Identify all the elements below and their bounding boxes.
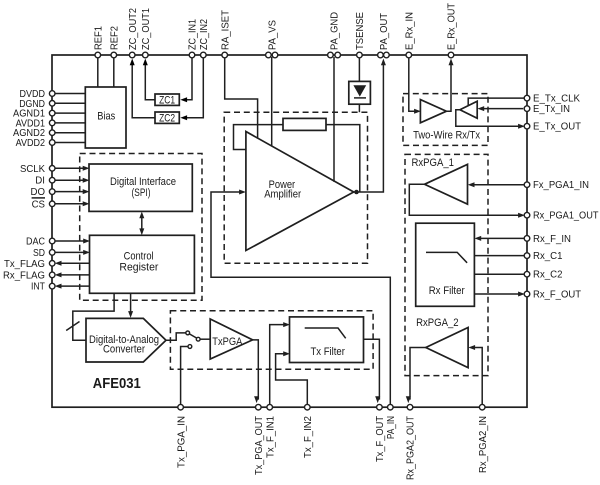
pin AVDD2 <box>16 137 55 149</box>
pin ZC_IN2 <box>198 19 210 58</box>
pin Tx_F_IN1 <box>264 404 276 458</box>
pin RA_ISET <box>219 9 231 57</box>
pin Tx_PGA_OUT <box>253 404 265 475</box>
switch contact b <box>196 337 200 341</box>
pin DGND <box>19 98 55 110</box>
pin E_Tx_IN <box>524 103 570 115</box>
wire DGND to bias <box>54 102 85 104</box>
pin ZC_IN1 <box>187 19 199 58</box>
wire E_Tx_IN to transmit buffer <box>477 106 523 111</box>
pin Tx_FLAG <box>4 258 55 270</box>
svg-text:RxPGA_2: RxPGA_2 <box>416 317 459 329</box>
pin TSENSE <box>354 12 366 58</box>
thermal sense diode box <box>349 81 371 104</box>
wire Tx_F_IN1 to Tx filter <box>270 322 290 405</box>
pin DO <box>31 186 56 198</box>
wire PA_IN pin to power amplifier input <box>211 190 390 406</box>
pin Rx_C1 <box>524 250 562 262</box>
wire Fx_PGA1_IN to RxPGA_1 <box>468 182 525 187</box>
svg-text:Rx_F_IN: Rx_F_IN <box>533 233 571 245</box>
wire DO to SPI <box>54 189 90 194</box>
pin Tx_PGA_IN <box>175 404 187 468</box>
svg-text:E_Rx_IN: E_Rx_IN <box>404 12 416 50</box>
wire switch b to TxPGA <box>200 338 210 340</box>
junction PA output node <box>354 190 359 195</box>
pin REF2 <box>109 26 121 58</box>
pin AGND2 <box>13 127 55 139</box>
svg-text:E_Tx_OUT: E_Tx_OUT <box>533 121 582 133</box>
pin DVDD <box>20 88 56 100</box>
wire receive buffer to E_Rx_OUT <box>446 59 453 112</box>
pin SCLK <box>20 163 55 175</box>
svg-text:E_Rx_OUT: E_Rx_OUT <box>446 2 458 50</box>
wire RxPGA_1 output to Rx_PGA1_OUT <box>409 184 525 217</box>
wire ZC_IN1 to ZC1 <box>180 57 192 102</box>
pin E_Rx_IN <box>404 12 416 58</box>
pin REF1 <box>93 26 105 58</box>
svg-text:PA_OUT: PA_OUT <box>378 12 390 50</box>
wire PA_GND into PA <box>333 57 335 182</box>
svg-text:Tx Filter: Tx Filter <box>310 346 345 358</box>
pin SD <box>33 247 55 259</box>
pin Rx_FLAG <box>3 269 55 281</box>
svg-text:Two-Wire Rx/Tx: Two-Wire Rx/Tx <box>413 130 480 142</box>
op-amp power amplifier <box>246 132 354 251</box>
wire AVDD2 to bias <box>54 142 85 144</box>
svg-text:DO: DO <box>31 186 46 198</box>
wire Rx filter output to Rx_F_OUT <box>474 292 525 297</box>
svg-text:(SPI): (SPI) <box>132 187 151 199</box>
svg-text:Rx_C2: Rx_C2 <box>533 269 563 281</box>
svg-text:Tx_FLAG: Tx_FLAG <box>4 258 45 270</box>
wire AGND2 to bias <box>54 132 85 134</box>
wire PA_VS into PA <box>271 57 273 146</box>
pin Rx_PGA2_OUT <box>405 404 417 480</box>
wire ZC1 out to ZC_OUT1 <box>143 59 155 100</box>
wire transmit buffer to E_Tx_OUT <box>456 110 525 129</box>
Tx section dashed box <box>170 311 373 370</box>
svg-text:Register: Register <box>119 262 158 274</box>
wire SD to control register <box>54 250 90 255</box>
comparator ZC2 <box>155 112 179 125</box>
pin Rx_PGA2_IN <box>477 404 489 473</box>
bus control register to DAC left (with width slash) <box>66 293 114 340</box>
chip outer boundary <box>52 55 527 407</box>
control register block <box>90 235 195 293</box>
buffer two-wire transmit <box>460 101 477 118</box>
wire control register to DAC top <box>128 293 133 318</box>
pin PA_IN <box>385 404 397 439</box>
svg-text:RA_ISET: RA_ISET <box>219 9 231 50</box>
pin Rx_PGA1_OUT <box>524 210 599 222</box>
pin PA_OUT (double) <box>378 12 391 57</box>
svg-text:DAC: DAC <box>26 236 45 248</box>
pin Fx_PGA1_IN <box>524 179 589 191</box>
wire control register to Tx_FLAG <box>55 261 90 266</box>
svg-text:Amplifier: Amplifier <box>264 188 301 200</box>
pin PA_VS (double) <box>266 20 279 58</box>
svg-text:Fx_PGA1_IN: Fx_PGA1_IN <box>533 179 589 191</box>
wire control register to Rx_FLAG <box>55 272 90 277</box>
wire PA output to PA_OUT pin <box>354 59 386 193</box>
pin E_Tx_CLK <box>524 93 580 105</box>
svg-text:Tx_PGA_OUT: Tx_PGA_OUT <box>253 415 265 475</box>
svg-text:TSENSE: TSENSE <box>354 12 366 50</box>
svg-text:Converter: Converter <box>103 343 145 355</box>
svg-text:Tx_F_IN1: Tx_F_IN1 <box>264 416 276 458</box>
wire TSENSE to diode <box>358 57 360 81</box>
amplifier RxPGA_1 <box>412 157 468 204</box>
svg-text:E_Tx_IN: E_Tx_IN <box>533 103 570 115</box>
Tx filter block <box>290 317 364 363</box>
wire AVDD1 to bias <box>54 122 85 124</box>
svg-text:CS: CS <box>32 198 45 210</box>
pin INT <box>31 281 55 293</box>
wire ZC2 out to ZC_OUT2 <box>130 59 155 118</box>
wire Tx filter output to Tx_F_OUT <box>364 339 381 403</box>
switch blade <box>189 334 196 338</box>
comparator ZC1 <box>155 94 179 107</box>
wire ZC_IN2 to ZC2 <box>180 57 203 120</box>
svg-text:REF2: REF2 <box>109 26 121 50</box>
svg-text:INT: INT <box>31 281 45 293</box>
switch contact a <box>186 331 190 335</box>
amplifier TxPGA <box>210 319 252 359</box>
pin Rx_F_IN <box>524 233 571 245</box>
wire Rx_F_IN to Rx filter <box>474 236 524 241</box>
svg-text:ZC1: ZC1 <box>159 95 175 107</box>
svg-text:Rx Filter: Rx Filter <box>429 285 465 297</box>
svg-text:Tx_F_IN2: Tx_F_IN2 <box>302 416 314 458</box>
wire diode to PA box <box>358 104 360 112</box>
svg-text:TxPGA: TxPGA <box>212 336 243 348</box>
svg-text:Rx_FLAG: Rx_FLAG <box>3 269 45 281</box>
amplifier RxPGA_2 <box>416 317 468 368</box>
pin E_Tx_OUT <box>524 121 581 133</box>
pin DI <box>35 175 55 187</box>
two-wire Rx/Tx dashed box <box>403 94 488 146</box>
svg-text:Bias: Bias <box>97 111 115 123</box>
Rx filter block <box>416 223 475 306</box>
svg-text:DI: DI <box>35 175 45 187</box>
bus SPI to control register (bidirectional arrow) <box>139 212 144 236</box>
switch contact c <box>188 345 192 349</box>
pin E_Rx_OUT <box>446 2 458 57</box>
svg-text:ZC_OUT2: ZC_OUT2 <box>127 8 139 50</box>
pin Tx_F_OUT <box>374 404 386 462</box>
wire RA_ISET into PA <box>225 57 258 139</box>
svg-text:ZC_IN2: ZC_IN2 <box>198 19 210 50</box>
svg-text:Tx_PGA_IN: Tx_PGA_IN <box>175 416 187 468</box>
svg-text:REF1: REF1 <box>93 26 105 50</box>
svg-text:ZC_OUT1: ZC_OUT1 <box>140 8 152 50</box>
wire TxPGA output to Tx_PGA_OUT <box>253 340 260 403</box>
wire Tx_F_IN2 to Tx filter <box>276 351 308 405</box>
wire SCLK to SPI <box>54 166 90 171</box>
pin ZC_OUT2 <box>127 8 139 58</box>
svg-text:Rx_F_OUT: Rx_F_OUT <box>533 289 582 301</box>
pin AGND1 <box>13 108 55 120</box>
svg-text:Rx_PGA2_IN: Rx_PGA2_IN <box>477 416 489 473</box>
wire DVDD to bias <box>54 93 85 95</box>
svg-text:PA_GND: PA_GND <box>329 12 341 50</box>
chip name AFE031 <box>93 376 141 392</box>
pin Rx_C2 <box>524 269 562 281</box>
svg-text:RxPGA_1: RxPGA_1 <box>412 157 455 169</box>
wire REF2 to bias <box>113 57 115 87</box>
pin Tx_F_IN2 <box>302 404 314 458</box>
pin Rx_F_OUT <box>524 289 581 301</box>
svg-text:AFE031: AFE031 <box>93 376 141 392</box>
svg-text:Rx_PGA2_OUT: Rx_PGA2_OUT <box>405 416 417 480</box>
wire Rx_PGA2_IN to RxPGA_2 <box>468 345 482 405</box>
wire E_Tx_CLK to transmit buffer <box>468 98 524 105</box>
buffer two-wire receive <box>420 100 446 123</box>
wire CS to SPI <box>54 201 90 206</box>
wire Rx_C2 to Rx filter <box>474 273 524 275</box>
digital section dashed box <box>80 154 202 301</box>
wire DI to SPI <box>54 178 90 183</box>
svg-text:Rx_PGA1_OUT: Rx_PGA1_OUT <box>533 210 599 222</box>
digital interface (SPI) block <box>89 164 192 211</box>
wire control register to INT <box>55 284 90 289</box>
svg-text:ZC_IN1: ZC_IN1 <box>187 19 199 50</box>
wire Tx_PGA_IN to switch contact c <box>181 347 188 406</box>
wire Rx_C1 to Rx filter <box>474 255 524 257</box>
bias block <box>85 87 126 148</box>
feedback wire PA output to resistor to PA input <box>234 125 360 192</box>
svg-text:Rx_C1: Rx_C1 <box>533 250 563 262</box>
pin ZC_OUT1 <box>140 8 152 58</box>
wire AGND1 to bias <box>54 112 85 114</box>
svg-text:SCLK: SCLK <box>20 163 45 175</box>
power amplifier dashed box <box>224 112 367 263</box>
svg-text:AVDD2: AVDD2 <box>16 137 46 149</box>
wire REF1 to bias <box>97 57 99 87</box>
pin AVDD1 <box>16 117 55 129</box>
wire DAC pin to control register <box>54 239 90 244</box>
DAC block (digital-to-analog converter) <box>86 318 166 362</box>
feedback resistor RA <box>283 118 326 130</box>
pin CS (active low) <box>32 198 55 210</box>
svg-text:PA_VS: PA_VS <box>266 20 278 50</box>
wire RxPGA_2 output to Rx_PGA2_OUT <box>406 348 426 404</box>
pin PA_GND (double) <box>328 12 341 58</box>
wire E_Rx_IN to receive buffer <box>409 57 421 114</box>
pin DAC <box>26 236 55 248</box>
wire DAC output to switch <box>166 333 186 340</box>
svg-text:PA_IN: PA_IN <box>385 416 397 439</box>
svg-text:ZC2: ZC2 <box>159 113 175 125</box>
Rx section dashed box <box>405 154 488 375</box>
